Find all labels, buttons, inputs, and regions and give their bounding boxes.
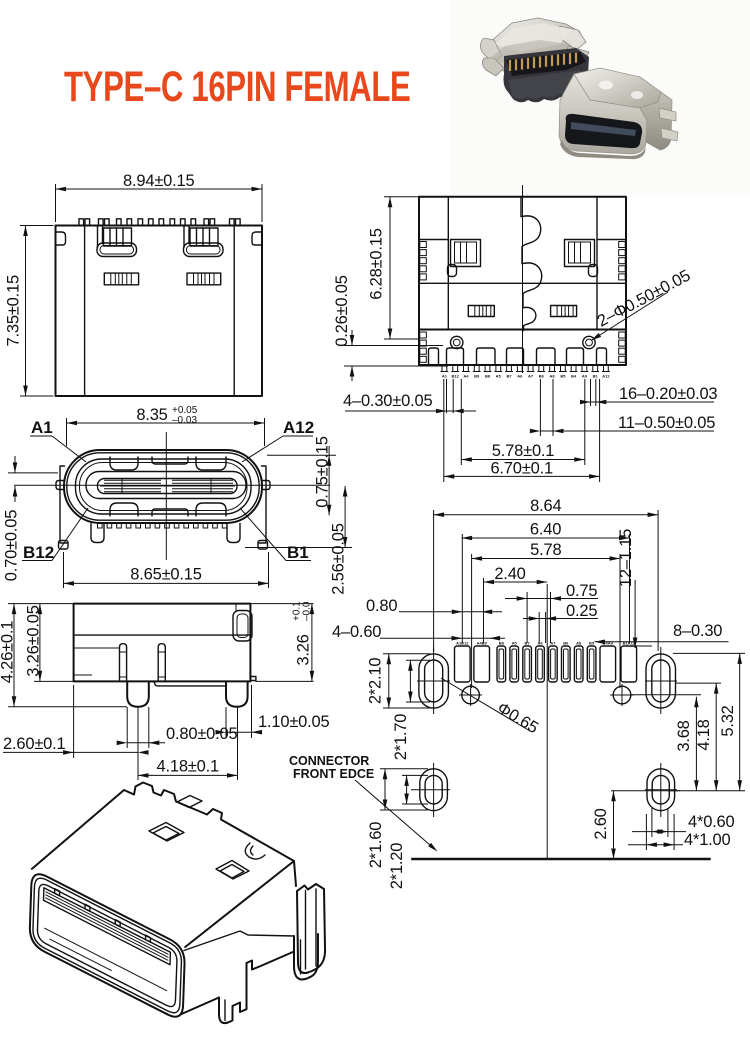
photo of two connectors bbox=[450, 0, 750, 195]
dim 7.35 +-0.15 bbox=[5, 226, 28, 397]
dim 8.65 extension lines bbox=[63, 552, 65, 588]
3d view tongue bar bbox=[44, 888, 171, 965]
svg-text:B9: B9 bbox=[474, 374, 480, 379]
svg-text:B5: B5 bbox=[589, 641, 595, 646]
svg-text:8.35: 8.35 bbox=[136, 406, 167, 424]
svg-text:B12: B12 bbox=[23, 543, 54, 562]
3d view top latch hole 1 bbox=[149, 823, 184, 842]
back view left wall spring teeth bbox=[420, 242, 427, 280]
dim 2.60 (footprint) bbox=[592, 791, 616, 859]
leader 2-dia0.50 +-0.05 bbox=[591, 267, 693, 341]
svg-text:–0.03: –0.03 bbox=[172, 415, 197, 426]
dim 0.80 +-0.05 bbox=[117, 725, 238, 745]
side view SMT pin 2 bbox=[158, 644, 165, 681]
svg-text:12–1.15: 12–1.15 bbox=[617, 529, 635, 587]
3d view top face notch near back edge bbox=[177, 796, 202, 808]
footprint left hole dia0.65 bbox=[459, 684, 482, 706]
footprint upper extension lines bbox=[434, 510, 658, 688]
side view SMT pin 1 bbox=[120, 644, 127, 681]
3d view right side face bbox=[294, 861, 296, 886]
photo right connector body bbox=[559, 68, 678, 159]
footprint pad labels bbox=[456, 641, 636, 646]
back view pin extension lines down bbox=[444, 379, 600, 482]
top view corner notches bbox=[56, 232, 66, 245]
dim 4-0.30 +-0.05 bbox=[343, 392, 476, 413]
svg-text:2*2.10: 2*2.10 bbox=[367, 658, 385, 705]
dim 0.70 arrows bbox=[13, 456, 18, 502]
svg-text:2*1.70: 2*1.70 bbox=[392, 714, 410, 761]
svg-text:B8: B8 bbox=[499, 641, 505, 646]
label A12 with leader bbox=[242, 418, 314, 462]
svg-text:16–0.20±0.03: 16–0.20±0.03 bbox=[619, 385, 717, 403]
front view top latch bumps bbox=[110, 457, 138, 470]
svg-text:4–0.60: 4–0.60 bbox=[332, 623, 381, 641]
svg-text:A4B9: A4B9 bbox=[477, 641, 488, 646]
footprint lower-left oval slot bbox=[411, 763, 450, 817]
dim 12-1.15 bbox=[617, 529, 652, 648]
dim 4-0.60 bbox=[332, 623, 505, 641]
front view bottom teeth bbox=[98, 524, 227, 529]
dim 2*2.10 extension lines bbox=[383, 653, 430, 655]
svg-text:0.26±0.05: 0.26±0.05 bbox=[333, 275, 351, 347]
title TYPE-C 16PIN FEMALE bbox=[64, 62, 410, 110]
dim 4.18 (footprint) bbox=[695, 683, 719, 791]
dim 0.25 bbox=[523, 602, 598, 621]
top view body outline bbox=[56, 226, 263, 397]
svg-text:6.28±0.15: 6.28±0.15 bbox=[368, 228, 386, 300]
front view tongue contacts bbox=[104, 479, 233, 494]
svg-text:6.70±0.1: 6.70±0.1 bbox=[490, 459, 553, 477]
svg-text:2*1.20: 2*1.20 bbox=[388, 843, 406, 890]
side view through-hole leg 1 bbox=[127, 681, 149, 706]
side view dim extension verticals bbox=[74, 685, 252, 780]
svg-text:0.80±0.05: 0.80±0.05 bbox=[166, 725, 238, 743]
front view left leg bbox=[91, 524, 104, 543]
back view right hatched window bbox=[551, 306, 577, 317]
dim 2*1.70 extension lines bbox=[406, 659, 430, 661]
dim 1.10 +-0.05 bbox=[216, 713, 330, 735]
svg-text:A6: A6 bbox=[517, 374, 523, 379]
3d view top face curl notch bbox=[245, 843, 265, 859]
dim 0.75 (footprint) bbox=[505, 582, 598, 601]
svg-text:4*0.60: 4*0.60 bbox=[688, 813, 735, 831]
svg-text:2.60: 2.60 bbox=[592, 808, 610, 839]
dim 0.26 extension lines bbox=[344, 345, 443, 347]
dim 6.70 +-0.1 bbox=[444, 459, 600, 478]
svg-text:2.60±0.1: 2.60±0.1 bbox=[3, 735, 66, 753]
svg-text:1.10±0.05: 1.10±0.05 bbox=[258, 713, 330, 731]
dim 2.60 +-0.1 bbox=[3, 735, 149, 755]
svg-text:7.35±0.15: 7.35±0.15 bbox=[5, 275, 23, 347]
svg-text:FRONT EDCE: FRONT EDCE bbox=[293, 767, 374, 781]
dim 2*2.10 bbox=[367, 654, 392, 708]
svg-text:A4: A4 bbox=[463, 374, 469, 379]
svg-text:B7: B7 bbox=[506, 374, 512, 379]
svg-text:A6: A6 bbox=[537, 641, 543, 646]
3d view front face outer shell bbox=[30, 874, 185, 1017]
side view through-hole leg 2 bbox=[226, 681, 248, 706]
photo left connector shell bbox=[480, 18, 589, 76]
3d view right leg hook bbox=[294, 934, 318, 979]
svg-text:4.18: 4.18 bbox=[695, 719, 713, 750]
svg-text:5.78: 5.78 bbox=[530, 541, 561, 559]
svg-text:2.40: 2.40 bbox=[494, 565, 525, 583]
svg-text:B6: B6 bbox=[563, 641, 569, 646]
footprint right hole dia0.65 bbox=[610, 684, 634, 706]
front view outer shell bbox=[64, 450, 262, 523]
label B12 with leader bbox=[22, 508, 88, 562]
dim 2*1.20 extension lines bbox=[402, 774, 428, 776]
top view left latch contact bbox=[97, 226, 137, 257]
dim 3.26 +0.1 -0.0 right bbox=[292, 601, 315, 682]
dim 6.40 bbox=[462, 521, 630, 541]
top view right latch contact bbox=[184, 226, 224, 257]
front view bottom latch bumps bbox=[110, 503, 138, 516]
back view left latch block bbox=[448, 240, 481, 277]
svg-text:A12: A12 bbox=[283, 418, 314, 437]
svg-text:5.32: 5.32 bbox=[719, 705, 737, 736]
svg-text:CONNECTOR: CONNECTOR bbox=[289, 754, 369, 768]
footprint center line bbox=[546, 584, 548, 859]
front view right side flange bbox=[259, 466, 266, 543]
svg-text:0.75±0.15: 0.75±0.15 bbox=[314, 436, 332, 508]
dim 8.64 bbox=[434, 497, 658, 517]
svg-text:A9: A9 bbox=[582, 374, 588, 379]
svg-text:B1: B1 bbox=[287, 543, 309, 562]
label A1 with leader bbox=[30, 418, 86, 462]
svg-text:TYPE–C 16PIN FEMALE: TYPE–C 16PIN FEMALE bbox=[64, 62, 410, 110]
3d view front face opening bbox=[37, 884, 176, 1006]
dim 8.35 extension lines bbox=[66, 418, 68, 446]
svg-text:4.18±0.1: 4.18±0.1 bbox=[156, 758, 219, 776]
dim 0.70 extension line bbox=[8, 472, 58, 474]
svg-text:A12: A12 bbox=[602, 374, 610, 379]
dim 8.35 +0.05 -0.03 bbox=[67, 405, 265, 426]
side view right small pin bbox=[250, 677, 256, 681]
dim 4.26 extension lines bbox=[8, 603, 74, 605]
dim 2*1.60 extension lines bbox=[380, 768, 428, 770]
svg-text:8.94±0.15: 8.94±0.15 bbox=[123, 172, 195, 190]
top view right hatched contact window bbox=[187, 273, 221, 285]
svg-text:2.56±0.05: 2.56±0.05 bbox=[330, 523, 348, 595]
dim 4*1.00 bbox=[628, 814, 731, 850]
svg-text:B8: B8 bbox=[485, 374, 491, 379]
side view right hook tab bbox=[233, 611, 252, 642]
dim 2*1.60 bbox=[367, 769, 387, 868]
svg-text:3.26: 3.26 bbox=[295, 634, 313, 665]
dim 4.26 +-0.1 bbox=[0, 604, 17, 707]
svg-text:11–0.50±0.05: 11–0.50±0.05 bbox=[618, 414, 715, 432]
dim 0.75 extension line bbox=[267, 454, 336, 456]
back view pin labels A1..A12 bbox=[442, 374, 611, 379]
svg-text:0.80: 0.80 bbox=[366, 597, 397, 615]
footprint upper-right oval slot bbox=[645, 647, 677, 714]
dim 0.80 (footprint) bbox=[366, 597, 502, 615]
top view top edge teeth bbox=[79, 219, 240, 226]
dim 0.26 +-0.05 arrows bbox=[350, 330, 355, 381]
svg-text:B1: B1 bbox=[593, 374, 599, 379]
back view right bottom wall teeth bbox=[619, 332, 626, 362]
3d view right flange bbox=[297, 884, 325, 973]
label CONNECTOR FRONT EDCE bbox=[289, 754, 438, 852]
svg-text:6.40: 6.40 bbox=[530, 521, 561, 539]
dim 2.40 bbox=[484, 565, 548, 584]
svg-text:B5: B5 bbox=[560, 374, 566, 379]
top view inner side walls bbox=[84, 226, 86, 397]
dim 8.94 extension lines bbox=[55, 184, 57, 222]
3d view body bottom edge bbox=[182, 998, 220, 1015]
front view tongue bbox=[98, 479, 238, 494]
dim 11-0.50 +-0.05 bbox=[530, 414, 715, 433]
3d view front face lower inner lines bbox=[44, 928, 167, 991]
back view center line bbox=[522, 185, 524, 373]
dim 5.32 bbox=[719, 653, 742, 790]
back view left hatched window bbox=[468, 306, 494, 317]
back view left mount hole bbox=[451, 336, 463, 348]
svg-text:A1: A1 bbox=[442, 374, 448, 379]
dim 7.35 extension lines bbox=[20, 225, 54, 227]
side view shell fold lines bbox=[74, 634, 251, 636]
front view inner housing bbox=[76, 459, 252, 514]
back view inner walls bbox=[447, 197, 449, 330]
svg-text:A7: A7 bbox=[550, 641, 556, 646]
svg-text:4.26±0.1: 4.26±0.1 bbox=[0, 621, 17, 684]
dim 5.78 (footprint) bbox=[472, 541, 620, 561]
svg-text:B6: B6 bbox=[539, 374, 545, 379]
3d view top face outline bbox=[32, 783, 294, 948]
svg-text:3.68: 3.68 bbox=[675, 720, 693, 751]
svg-text:0.75: 0.75 bbox=[566, 582, 597, 600]
svg-text:5.78±0.1: 5.78±0.1 bbox=[492, 442, 555, 460]
3d view top latch hole 2 bbox=[216, 861, 249, 880]
back view pin slot notches bbox=[429, 348, 607, 365]
svg-text:2*1.60: 2*1.60 bbox=[367, 822, 385, 869]
back view center puzzle seam bbox=[521, 197, 542, 331]
svg-text:0.25: 0.25 bbox=[566, 602, 597, 620]
dim 2.56 +-0.05 bbox=[343, 486, 348, 548]
dim 8-0.30 bbox=[595, 622, 729, 644]
footprint lower-right oval slot bbox=[645, 763, 677, 817]
footprint upper-left oval slot bbox=[417, 647, 450, 714]
dim 6.28 extension lines bbox=[384, 196, 419, 198]
dim 4.18 +-0.1 bbox=[138, 758, 238, 778]
footprint connector front edge line bbox=[411, 858, 711, 860]
dim 2*1.70 bbox=[392, 660, 413, 760]
back view right wall spring teeth bbox=[619, 242, 626, 280]
side view bottom step bbox=[149, 681, 226, 686]
svg-text:8–0.30: 8–0.30 bbox=[673, 622, 722, 640]
front view tongue housing bbox=[86, 472, 246, 499]
dim 3.26 right extension lines bbox=[250, 603, 313, 605]
leader dia0.65 bbox=[441, 678, 541, 737]
dim 2.56 extension line bbox=[245, 547, 352, 549]
3d view bottom edge after leg bbox=[247, 952, 295, 970]
dim 8.65 +-0.15 bbox=[64, 566, 269, 586]
svg-text:A5: A5 bbox=[512, 641, 518, 646]
svg-text:4*1.00: 4*1.00 bbox=[684, 831, 731, 849]
top view left hatched contact window bbox=[104, 273, 138, 285]
3d view front face shell inner edge bbox=[33, 878, 181, 1013]
back view right latch block bbox=[565, 240, 598, 277]
back view left bottom wall teeth bbox=[420, 332, 427, 362]
3d view front leg bbox=[219, 963, 247, 1023]
dim 2*1.20 bbox=[388, 775, 409, 889]
dim 5.78 +-0.1 (back view) bbox=[461, 442, 585, 462]
photo left connector dark base with pins bbox=[504, 48, 590, 102]
svg-text:A1: A1 bbox=[31, 418, 53, 437]
svg-text:A5: A5 bbox=[496, 374, 502, 379]
svg-text:3.26±0.05: 3.26±0.05 bbox=[25, 605, 43, 677]
svg-text:8.65±0.15: 8.65±0.15 bbox=[130, 566, 202, 584]
dim 16-0.20 +-0.03 bbox=[580, 385, 717, 404]
svg-text:B4: B4 bbox=[571, 374, 577, 379]
label B1 with leader bbox=[240, 508, 311, 562]
svg-text:4–0.30±0.05: 4–0.30±0.05 bbox=[343, 392, 432, 410]
back view 16 pins bbox=[441, 365, 610, 372]
svg-text:B12: B12 bbox=[452, 374, 460, 379]
svg-text:8.64: 8.64 bbox=[530, 497, 561, 515]
dim 6.28 +-0.15 bbox=[368, 197, 393, 339]
back view right mount hole bbox=[583, 336, 595, 348]
svg-text:–0.0: –0.0 bbox=[302, 601, 313, 621]
footprint 12 solder pads bbox=[455, 646, 637, 682]
back view body outline bbox=[419, 197, 626, 365]
front view center lines bbox=[165, 432, 167, 560]
side view body outline bbox=[74, 604, 251, 682]
dim 4*0.60 bbox=[632, 808, 735, 837]
dim 3.26 +-0.05 left bbox=[34, 680, 74, 682]
3d view right side bottom rim line bbox=[184, 931, 294, 951]
front view left side flange bbox=[60, 466, 67, 543]
svg-text:A8: A8 bbox=[576, 641, 582, 646]
back view horizontal shelf lines bbox=[419, 239, 448, 241]
front view right leg bbox=[227, 524, 240, 543]
footprint right extension lines bbox=[611, 653, 745, 790]
svg-text:A8: A8 bbox=[550, 374, 556, 379]
svg-text:A7: A7 bbox=[528, 374, 534, 379]
dim 0.75 arrows bbox=[327, 446, 332, 515]
svg-text:0.70±0.05: 0.70±0.05 bbox=[3, 510, 21, 582]
dim 8.94 +-0.15 bbox=[56, 172, 263, 191]
front view shell inner edge bbox=[67, 453, 259, 520]
front view side stubs bbox=[56, 481, 64, 490]
dim 3.68 bbox=[675, 697, 699, 791]
